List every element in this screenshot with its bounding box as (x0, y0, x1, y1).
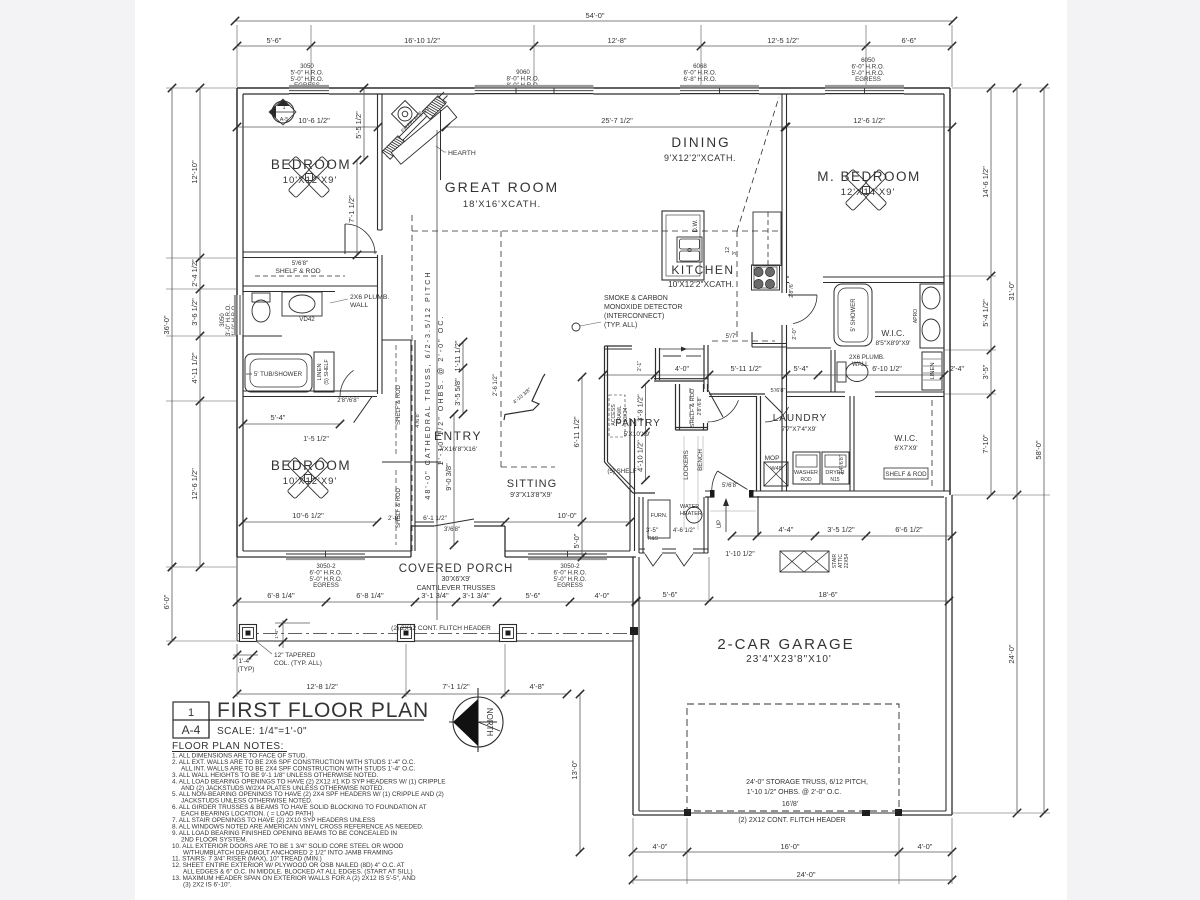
svg-text:24'-0" STORAGE TRUSS, 6/12 PIT: 24'-0" STORAGE TRUSS, 6/12 PITCH, (746, 779, 868, 786)
garage front wall (633, 814, 952, 816)
entry door opening (434, 521, 474, 527)
attic stair box (780, 551, 829, 572)
fireplace (382, 92, 456, 164)
porch column 3 (500, 625, 517, 642)
porch left edge (236, 557, 238, 641)
hall dashed ceiling (712, 340, 775, 342)
svg-text:KITCHEN: KITCHEN (671, 263, 734, 277)
svg-text:1'-10 1/2": 1'-10 1/2" (725, 551, 755, 558)
svg-text:(5) SHELF: (5) SHELF (324, 359, 330, 385)
svg-text:24'-0": 24'-0" (1007, 644, 1016, 663)
svg-text:LINEN: LINEN (930, 362, 936, 379)
left extension lines (166, 87, 236, 89)
lockers closet (675, 384, 677, 430)
top wall window bedroom 3050 (289, 87, 329, 94)
svg-text:48'-0" CATHEDRAL TRUSS, 6/2-3.: 48'-0" CATHEDRAL TRUSS, 6/2-3.5/12 PITCH (423, 270, 432, 499)
svg-text:6'-8 1/4": 6'-8 1/4" (356, 591, 384, 600)
overall top dimension 54'-0" (235, 20, 953, 22)
svg-text:2'-4 1/2": 2'-4 1/2" (190, 259, 199, 287)
svg-text:W.I.C.: W.I.C. (894, 433, 917, 443)
cathedral dashed sitting (501, 466, 555, 468)
svg-text:12'-6 1/2": 12'-6 1/2" (190, 468, 199, 500)
porch front edge (237, 640, 633, 642)
stairs up (757, 496, 759, 536)
top wall window dining 6068 (680, 87, 759, 94)
closet door arc hall (708, 400, 739, 422)
svg-text:6'-6": 6'-6" (902, 36, 917, 45)
bath bottom wall (243, 390, 377, 392)
svg-text:1: 1 (282, 105, 285, 111)
svg-text:BENCH: BENCH (697, 449, 704, 471)
svg-text:3'-5": 3'-5" (981, 364, 990, 379)
svg-text:5' SHOWER: 5' SHOWER (851, 298, 857, 332)
svg-text:BEDROOM: BEDROOM (271, 157, 351, 172)
svg-text:14'-6 1/2": 14'-6 1/2" (981, 166, 990, 198)
north arrow (453, 697, 503, 747)
svg-text:9'-0 3/8": 9'-0 3/8" (444, 463, 453, 491)
svg-text:8'5"X8'9"X9': 8'5"X8'9"X9' (875, 340, 910, 347)
svg-text:(2) 2X12 CONT. FLITCH HEADER: (2) 2X12 CONT. FLITCH HEADER (391, 625, 491, 632)
svg-text:10'X12'X9': 10'X12'X9' (283, 175, 338, 186)
svg-text:9'X12'2"XCATH.: 9'X12'2"XCATH. (664, 153, 736, 163)
master bath bottom wall (787, 391, 945, 393)
title block box (173, 702, 209, 738)
svg-text:MONOXIDE DETECTOR: MONOXIDE DETECTOR (604, 304, 682, 311)
water heater (686, 507, 702, 523)
svg-text:W48: W48 (770, 466, 781, 472)
svg-text:COVERED PORCH: COVERED PORCH (399, 563, 514, 575)
svg-text:HEARTH: HEARTH (448, 150, 476, 157)
svg-text:SITTING: SITTING (507, 478, 557, 490)
svg-text:2'8"/6'8": 2'8"/6'8" (697, 397, 703, 416)
garage storage truss dashed outline (687, 704, 899, 811)
svg-text:2'8"/6'8": 2'8"/6'8" (337, 398, 359, 404)
left wall window 3050 (236, 295, 243, 335)
svg-text:(3) 2X2 IS 6'-10".: (3) 2X2 IS 6'-10". (183, 882, 232, 889)
front wall bedroom2 segment (237, 556, 411, 558)
svg-text:HEATER: HEATER (680, 511, 702, 517)
svg-text:1'-11 1/2": 1'-11 1/2" (453, 340, 462, 371)
bedroom1 dim 10'-6 1/2" (237, 126, 378, 128)
mop sink (764, 462, 788, 486)
svg-text:6'X7'X9': 6'X7'X9' (894, 445, 917, 452)
svg-text:2-CAR GARAGE: 2-CAR GARAGE (717, 636, 854, 653)
top dimension extension lines (236, 25, 238, 87)
svg-text:4'-4": 4'-4" (779, 525, 794, 534)
svg-text:5'/6'8": 5'/6'8" (722, 483, 738, 489)
svg-text:3'-5": 3'-5" (646, 528, 658, 534)
svg-text:ROD: ROD (800, 477, 812, 483)
mech room walls (638, 497, 640, 553)
right dimension 31'-0" and 24'-0" (1016, 88, 1018, 813)
svg-text:WALL: WALL (350, 302, 368, 309)
cathedral dashed diagonal dining (737, 97, 779, 231)
entry dim vertical (462, 342, 464, 414)
svg-text:SHELF & ROD: SHELF & ROD (690, 389, 696, 428)
white drawing sheet (135, 0, 1067, 900)
bedroom1 ceiling fan (288, 156, 330, 198)
svg-text:W.I.C.: W.I.C. (881, 328, 904, 338)
svg-text:58'-0": 58'-0" (1034, 440, 1043, 459)
cathedral dashed line vertical left (411, 215, 413, 553)
svg-text:16'-10 1/2": 16'-10 1/2" (404, 36, 440, 45)
svg-text:3'-5 5/8": 3'-5 5/8" (453, 378, 462, 406)
svg-text:3'-5 1/2": 3'-5 1/2" (827, 525, 855, 534)
left overall dimension 36'-0" (171, 88, 173, 567)
svg-text:4'-0": 4'-0" (675, 366, 689, 373)
hall wall below bedroom1 door (377, 255, 379, 394)
front window 3050-2 bedroom2 (286, 551, 365, 558)
svg-text:5'-6": 5'-6" (267, 36, 282, 45)
svg-text:5'-4 1/2": 5'-4 1/2" (981, 299, 990, 327)
garage top dim row (732, 535, 952, 537)
svg-text:DRYER: DRYER (825, 470, 844, 476)
svg-text:APRO: APRO (913, 309, 919, 323)
bedroom1 door opening and door (345, 224, 375, 254)
pantry walls (604, 346, 606, 462)
svg-text:N15: N15 (830, 477, 839, 483)
svg-text:3': 3' (732, 251, 738, 255)
wic2 left wall (849, 396, 851, 491)
svg-text:4'-0": 4'-0" (595, 591, 610, 600)
svg-text:6'-11 1/2": 6'-11 1/2" (572, 416, 581, 447)
svg-text:A-4: A-4 (182, 723, 201, 737)
svg-text:5'-0": 5'-0" (572, 533, 581, 548)
right overall dimension 58'-0" (1043, 88, 1045, 813)
svg-text:GREAT ROOM: GREAT ROOM (445, 179, 559, 195)
bath door (340, 370, 354, 396)
garage right wall (951, 495, 953, 815)
cathedral dashed kitchen vertical (736, 231, 738, 341)
master vanity two sinks (920, 284, 944, 348)
laundry door arc (765, 407, 789, 422)
svg-text:1'-10 1/2" OHBS. @ 2'-0" O.C.: 1'-10 1/2" OHBS. @ 2'-0" O.C. (747, 789, 842, 796)
bedroom2 ceiling fan (287, 457, 329, 499)
great room dim 25'-7 1/2" (446, 126, 785, 128)
bedroom1 great room wall (377, 94, 379, 230)
svg-text:23'4"X23'8"X10': 23'4"X23'8"X10' (746, 654, 832, 665)
front wall sitting segment (505, 556, 636, 558)
svg-text:24'-0": 24'-0" (796, 870, 815, 879)
svg-text:LINEN: LINEN (317, 363, 323, 380)
svg-text:10'-6 1/2": 10'-6 1/2" (298, 116, 330, 125)
locker closet shelf (689, 388, 691, 424)
svg-text:MOP: MOP (765, 455, 780, 462)
svg-text:12'X14'X9': 12'X14'X9' (841, 187, 896, 198)
kitchen sink double (677, 237, 702, 262)
svg-text:9'3"X13'8"X9': 9'3"X13'8"X9' (510, 492, 552, 499)
bedroom2 dims (243, 423, 340, 425)
kitchen counter right (753, 212, 781, 266)
garage door centre post mark (862, 810, 870, 816)
svg-text:5'-4": 5'-4" (271, 413, 286, 422)
closet shelf label bedroom1 (243, 285, 377, 287)
svg-text:NORTH: NORTH (485, 708, 494, 737)
svg-text:2'-4": 2'-4" (950, 366, 964, 373)
garage bottom extension lines (632, 818, 634, 884)
svg-text:SCALE: 1/4"=1'-0": SCALE: 1/4"=1'-0" (217, 726, 307, 737)
svg-text:12'-5 1/2": 12'-5 1/2" (767, 36, 799, 45)
svg-text:4'-11 1/2": 4'-11 1/2" (190, 352, 199, 383)
svg-text:10'X12'X9': 10'X12'X9' (283, 476, 338, 487)
porch column centreline (238, 633, 633, 635)
svg-text:1'-5 1/2": 1'-5 1/2" (303, 436, 329, 443)
svg-text:5'/6'8": 5'/6'8" (770, 388, 785, 394)
svg-text:2'-6 1/2": 2'-6 1/2" (493, 374, 499, 396)
top wall window master bedroom 6050 (825, 87, 904, 94)
porch bottom dim row (237, 693, 567, 695)
bath middle wall (243, 335, 282, 337)
toilet room wall (830, 350, 832, 392)
garage hall door (712, 471, 718, 491)
vertical dim 5'-5 1/2" (363, 88, 365, 160)
garage wall post mark (630, 627, 638, 635)
svg-text:(TYP. ALL): (TYP. ALL) (604, 322, 637, 329)
svg-text:LOCKERS: LOCKERS (683, 450, 690, 480)
stair opening in rear wall (714, 490, 749, 499)
svg-text:4'-0": 4'-0" (918, 842, 933, 851)
left porch depth dimension 6'-0" (171, 567, 173, 641)
bath vanity with sink (282, 292, 322, 316)
cathedral dashed kitchen horizontal (412, 230, 781, 232)
sitting bay walls (504, 374, 545, 420)
svg-text:WALL: WALL (852, 361, 869, 368)
svg-text:A-5: A-5 (280, 117, 289, 123)
master bedroom ceiling fan (845, 169, 887, 211)
left exterior wall (236, 88, 238, 557)
garage door jamb right (895, 809, 902, 816)
svg-text:ENTRY: ENTRY (434, 429, 482, 443)
sitting right wall (629, 418, 631, 551)
svg-text:WATER: WATER (680, 504, 699, 510)
svg-text:R&S: R&S (648, 536, 659, 542)
garage left vertical dim 13'-0" (579, 694, 581, 852)
svg-text:(2) 2X12 CONT. FLITCH HEADER: (2) 2X12 CONT. FLITCH HEADER (738, 817, 845, 824)
svg-text:22X54: 22X54 (844, 554, 850, 569)
svg-text:3'/6'8": 3'/6'8" (444, 527, 460, 533)
porch dim row (237, 601, 636, 603)
svg-text:SHELF & ROD: SHELF & ROD (275, 268, 320, 275)
svg-text:6'-1 1/2": 6'-1 1/2" (423, 515, 447, 522)
svg-text:SHELF & ROD: SHELF & ROD (396, 384, 402, 425)
svg-text:2'-0": 2'-0" (792, 328, 798, 340)
svg-text:SMOKE & CARBON: SMOKE & CARBON (604, 295, 668, 302)
svg-text:M. BEDROOM: M. BEDROOM (817, 169, 921, 184)
svg-text:2X6 PLUMB.: 2X6 PLUMB. (350, 294, 389, 301)
svg-text:SHELF & ROD: SHELF & ROD (885, 471, 927, 478)
porch column 2 (398, 625, 415, 642)
svg-text:5'/7': 5'/7' (726, 334, 737, 340)
wic2 dashed rod (931, 400, 933, 488)
svg-text:6'-0": 6'-0" (162, 594, 171, 609)
svg-text:13'-0": 13'-0" (570, 760, 579, 779)
svg-text:WASHER: WASHER (794, 470, 818, 476)
porch column 1 (240, 625, 257, 642)
svg-text:1'-4": 1'-4" (239, 658, 253, 665)
right extension lines (952, 87, 1050, 89)
svg-text:7'-10": 7'-10" (981, 434, 990, 453)
garage door opening (687, 810, 899, 817)
svg-text:FURN.: FURN. (651, 513, 668, 519)
svg-text:CANTILEVER TRUSSES: CANTILEVER TRUSSES (417, 585, 496, 592)
svg-text:6'-8" H.R.O.: 6'-8" H.R.O. (684, 76, 717, 83)
sitting dim 10'-0" (505, 521, 630, 523)
entry front wall (411, 525, 505, 527)
kitchen dining wall (781, 94, 783, 491)
svg-text:10'X12'2"XCATH.: 10'X12'2"XCATH. (668, 279, 734, 289)
svg-text:7'7"X7'4"X9': 7'7"X7'4"X9' (781, 426, 816, 433)
entry front closet walls (415, 461, 441, 463)
svg-text:2X6 PLUMB.: 2X6 PLUMB. (849, 354, 885, 361)
svg-text:4'/6'8": 4'/6'8" (415, 412, 421, 428)
cathedral dashed line vertical right (500, 231, 502, 467)
svg-text:12'-6 1/2": 12'-6 1/2" (853, 116, 885, 125)
svg-text:1'-4": 1'-4" (274, 629, 280, 639)
svg-text:16'-0": 16'-0" (780, 842, 799, 851)
svg-text:3'-1 3/4": 3'-1 3/4" (462, 591, 490, 600)
vertical dim 7'-1 1/2" (356, 160, 358, 255)
top exterior wall (237, 87, 950, 89)
svg-text:UP: UP (717, 520, 723, 528)
svg-text:(INTERCONNECT): (INTERCONNECT) (604, 313, 664, 320)
svg-text:(5) SHELF: (5) SHELF (607, 468, 636, 475)
svg-text:EGRESS: EGRESS (557, 582, 583, 589)
hall closets right of wall (410, 340, 412, 551)
bedroom1 closet wall (243, 251, 377, 253)
svg-text:4'-0": 4'-0" (653, 842, 668, 851)
svg-text:3'-1 3/4": 3'-1 3/4" (421, 591, 449, 600)
svg-text:16'/8': 16'/8' (782, 801, 798, 808)
mech room doors (645, 548, 662, 554)
garage bottom dim row (633, 851, 952, 853)
pantry dim vertical (645, 384, 647, 480)
svg-text:6'-6 1/2": 6'-6 1/2" (895, 525, 923, 534)
svg-text:18'-6": 18'-6" (818, 590, 837, 599)
master toilet (846, 363, 868, 382)
column width dim at column (282, 620, 284, 648)
master bedroom door opening (780, 293, 788, 325)
svg-text:7'-1 1/2": 7'-1 1/2" (347, 195, 356, 223)
svg-text:54'-0": 54'-0" (585, 11, 604, 20)
svg-text:6'-8 1/4": 6'-8 1/4" (267, 591, 295, 600)
master shower (834, 284, 872, 346)
svg-text:12: 12 (725, 247, 731, 253)
master linen (922, 352, 942, 390)
svg-text:3'-6 1/2": 3'-6 1/2" (190, 298, 199, 326)
svg-text:4'-6 1/2": 4'-6 1/2" (673, 528, 695, 534)
kitchen island (662, 211, 704, 280)
laundry walls (756, 396, 758, 491)
entry coat closet (655, 348, 657, 380)
sitting dim vertical 6'-11 1/2" (581, 377, 583, 557)
master bath top wall (787, 276, 945, 278)
svg-text:COL. (TYP. ALL): COL. (TYP. ALL) (274, 660, 322, 667)
garage interior width dim 5'-6" 18'-6" (636, 600, 949, 602)
lockers bench labels (683, 436, 685, 530)
svg-text:EGRESS: EGRESS (313, 582, 339, 589)
kitchen range (752, 265, 780, 290)
svg-text:3'-9 1/2": 3'-9 1/2" (636, 394, 645, 422)
svg-text:6'-10 1/2": 6'-10 1/2" (872, 366, 902, 373)
top wall window great room 9060 (475, 87, 594, 94)
svg-text:DINING: DINING (671, 135, 730, 150)
kitchen hall wall (751, 332, 753, 347)
svg-text:LAUNDRY: LAUNDRY (773, 413, 828, 424)
svg-text:FIRST FLOOR PLAN: FIRST FLOOR PLAN (217, 699, 429, 722)
svg-text:36'-0": 36'-0" (162, 315, 171, 334)
entry recess jog left (410, 526, 412, 557)
hall dim line (603, 374, 944, 376)
svg-text:12" TAPERED: 12" TAPERED (274, 652, 316, 659)
right dimension segments 14'-6 1/2" etc (990, 88, 992, 495)
svg-text:5'-6": 5'-6" (526, 591, 541, 600)
svg-text:5'-11 1/2": 5'-11 1/2" (730, 364, 761, 373)
svg-text:5'-6": 5'-6" (663, 590, 678, 599)
svg-text:5'/6'8": 5'/6'8" (292, 260, 309, 267)
garage left wall (632, 557, 634, 815)
entry recess jog right (504, 526, 506, 557)
svg-text:(TYP): (TYP) (238, 666, 255, 673)
garage door jamb left (684, 809, 691, 816)
washer dryer (793, 452, 820, 484)
svg-text:1: 1 (188, 707, 194, 719)
svg-text:25'-7 1/2": 25'-7 1/2" (601, 116, 633, 125)
column spacing dim 1'-4" (233, 654, 258, 656)
svg-text:BEDROOM: BEDROOM (271, 458, 351, 473)
svg-text:D.W.: D.W. (693, 219, 699, 232)
svg-text:12'-10": 12'-10" (190, 160, 199, 184)
front window 3050-2 sitting (528, 551, 607, 558)
truss note line (436, 130, 438, 620)
svg-text:VD42: VD42 (299, 316, 315, 323)
svg-text:31'-0": 31'-0" (1007, 281, 1016, 300)
svg-text:5' TUB/SHOWER: 5' TUB/SHOWER (254, 371, 303, 378)
garage bottom overall dim 24'-0" (633, 879, 952, 881)
rear right wall above garage (705, 490, 950, 492)
linen closet (314, 352, 334, 392)
svg-text:FLOOR PLAN NOTES:: FLOOR PLAN NOTES: (172, 741, 284, 752)
svg-text:7'-1 1/2": 7'-1 1/2" (442, 682, 470, 691)
svg-text:12'-8": 12'-8" (607, 36, 626, 45)
furnace (648, 500, 670, 538)
svg-text:5'-4": 5'-4" (794, 364, 809, 373)
svg-text:30X24: 30X24 (623, 407, 629, 422)
svg-text:EGRESS: EGRESS (855, 76, 881, 83)
svg-text:30'X6'X9': 30'X6'X9' (442, 576, 471, 583)
left dimension segments (199, 88, 201, 567)
tub shower (245, 354, 312, 392)
svg-text:12'-8 1/2": 12'-8 1/2" (306, 682, 338, 691)
svg-text:4'-8": 4'-8" (530, 682, 545, 691)
right exterior wall house (949, 88, 951, 495)
svg-text:7'X16'8"X16': 7'X16'8"X16' (439, 446, 477, 453)
svg-text:5'-5 1/2": 5'-5 1/2" (354, 111, 363, 139)
bath top fixtures - toilet (252, 300, 270, 322)
master bedroom dim 12'-6 1/2" (786, 126, 952, 128)
svg-text:18'X16'XCATH.: 18'X16'XCATH. (463, 199, 541, 210)
svg-text:4'-10 1/2": 4'-10 1/2" (636, 440, 645, 472)
top dimension row segments (237, 45, 952, 47)
svg-text:10'-6 1/2": 10'-6 1/2" (292, 511, 324, 520)
svg-text:2'-8": 2'-8" (388, 516, 400, 522)
detail marker A-5 (272, 101, 294, 123)
svg-text:10'-0": 10'-0" (557, 511, 576, 520)
svg-text:2'-1": 2'-1" (637, 361, 643, 371)
